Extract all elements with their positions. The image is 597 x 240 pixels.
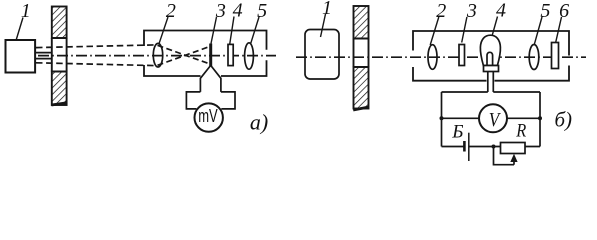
- aperture 3 (setup b): [459, 45, 465, 66]
- label 1 (setup b) with leader: [321, 0, 333, 37]
- lamp circuit: right wire: [539, 92, 541, 147]
- millivoltmeter body: [186, 92, 235, 109]
- ray bottom (source to lens L2): [36, 63, 156, 66]
- label 1 (setup a) with leader: [16, 0, 31, 40]
- slider wire: [494, 147, 515, 165]
- radiation source box 1: [6, 40, 36, 73]
- aperture 4 (setup a): [228, 44, 233, 65]
- lamp socket: [484, 66, 499, 72]
- svg-text:а): а): [250, 110, 268, 135]
- svg-text:Б: Б: [451, 122, 463, 143]
- thermocouple plate 3: [209, 44, 212, 67]
- thermocouple leads (wire): [200, 65, 221, 92]
- label 6 (setup b) with leader: [556, 0, 569, 42]
- svg-text:3: 3: [466, 0, 477, 22]
- lamp circuit: bottom wire: [442, 146, 541, 148]
- ray converging lower (lens to focus to plate top): [158, 46, 211, 65]
- svg-text:mV: mV: [198, 106, 218, 126]
- battery B: long thin plate: [468, 133, 470, 161]
- aperture 6 (setup b): [552, 43, 559, 69]
- lamp circuit: top wire: [442, 91, 541, 93]
- junction node left: [440, 116, 444, 120]
- svg-text:б): б): [555, 108, 573, 132]
- lens 2 (setup b): [428, 45, 437, 70]
- label 2 (setup a) with leader: [159, 0, 176, 44]
- lens 2 (setup a): [153, 43, 162, 67]
- screen / diaphragm (right, hatched): [353, 6, 369, 110]
- optical axis (setup b): [296, 56, 586, 58]
- millivoltmeter circle mV: [195, 103, 223, 131]
- junction node (slider tap): [492, 145, 496, 149]
- incandescent lamp 4 (bulb): [480, 35, 500, 65]
- voltmeter V circle: [479, 104, 507, 132]
- label 2 (setup b) with leader: [430, 0, 446, 45]
- optical axis (setup a): [38, 55, 276, 57]
- label 3 (setup b) with leader: [462, 0, 477, 43]
- lamp stem (filament mount): [487, 52, 493, 65]
- voltmeter branch wire: [442, 117, 541, 119]
- label 4 (setup b) with leader: [492, 0, 506, 35]
- label 5 (setup b) with leader: [534, 0, 550, 45]
- lamp lead wires: [488, 72, 494, 93]
- junction node right: [538, 116, 542, 120]
- lamp circuit: left wire: [441, 92, 443, 147]
- svg-text:1: 1: [322, 0, 332, 19]
- slider arrow: [510, 154, 517, 165]
- battery B: short thick plate: [463, 141, 466, 152]
- label 3 (setup a) with leader: [211, 0, 226, 44]
- svg-text:R: R: [515, 120, 526, 141]
- lens 5 (setup a): [245, 43, 254, 69]
- ray converging upper (lens to focus to plate bottom): [158, 45, 211, 64]
- chamber box (setup b): [413, 31, 569, 81]
- filter cell 1 (setup b): [305, 30, 339, 80]
- tube between source and screen: [35, 53, 52, 59]
- label 4 (setup a) with leader: [230, 0, 243, 44]
- label 5 (setup a) with leader: [251, 0, 267, 44]
- chamber box (setup a): [144, 31, 267, 77]
- screen / diaphragm (left, hatched): [52, 7, 68, 106]
- ray top (source to lens L2): [36, 45, 156, 48]
- lens 5 (setup b): [529, 45, 539, 70]
- rheostat R body: [501, 143, 526, 154]
